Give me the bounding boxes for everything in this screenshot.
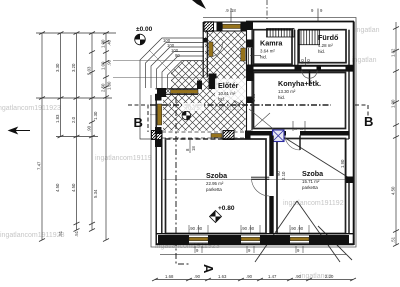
svg-text:ngatlancom1911923: ngatlancom1911923 (0, 105, 61, 112)
svg-text:10.61 m²: 10.61 m² (218, 91, 236, 96)
section line B-B horizontal dash-dot (150, 104, 331, 106)
svg-text:1.00: 1.00 (391, 99, 396, 108)
svg-text:2.10: 2.10 (281, 171, 286, 180)
svg-text:hid.: hid. (318, 49, 325, 54)
interior vertical wall foyer/kamra/konyha (222, 30, 305, 132)
window in top terrace wall (223, 24, 241, 28)
svg-text:.90: .90 (295, 274, 302, 279)
kamra door leaf (241, 48, 246, 61)
svg-text:22.95 m²: 22.95 m² (206, 181, 224, 186)
black post (217, 23, 223, 31)
svg-text:2.0: 2.0 (71, 116, 76, 123)
leader lines for steps (149, 50, 175, 115)
big triangle roof lines in szoba right (255, 136, 354, 262)
svg-text:4.50: 4.50 (391, 186, 396, 195)
svg-text:Előtér: Előtér (218, 81, 239, 90)
svg-text:2.50: 2.50 (101, 83, 106, 92)
svg-text:.90: .90 (194, 274, 201, 279)
leader lines from west dims (113, 60, 203, 62)
left big arrow (9, 128, 30, 134)
wall y=88.5-94.5 west strip (156, 74, 217, 98)
wall between kamra/fürdő and konyha (246, 57, 354, 86)
west wall lower (155, 94, 162, 244)
windows (brown bars) (189, 237, 309, 240)
svg-text:Konyha+étk.: Konyha+étk. (278, 79, 321, 88)
svg-text:ingatlancom19119: ingatlancom19119 (95, 155, 152, 162)
svg-text:±0.00: ±0.00 (136, 26, 153, 33)
section line A-A vertical top (266, 0, 268, 22)
kamra shelf hatch (267, 29, 295, 38)
svg-text:13.30 m²: 13.30 m² (278, 89, 296, 94)
section line A-A vertical bottom (176, 97, 190, 264)
svg-text:1.30: 1.30 (93, 111, 98, 120)
fürdő shower hatch (299, 30, 320, 45)
svg-text:90: 90 (300, 59, 305, 64)
svg-text:ingatlancom1911923: ingatlancom1911923 (0, 232, 65, 239)
svg-text:3.30: 3.30 (55, 63, 60, 72)
svg-text:hid.: hid. (278, 95, 285, 100)
hatched corner post (204, 22, 214, 32)
black posts at foyer SW corner (197, 81, 202, 90)
door between szobas (251, 177, 269, 179)
svg-text:4.50: 4.50 (71, 183, 76, 192)
svg-text:3.64 m²: 3.64 m² (260, 49, 275, 54)
level marker +0.75 (182, 106, 200, 120)
svg-text:90: 90 (175, 53, 180, 58)
svg-text:B: B (134, 115, 143, 130)
octagonal terrace steps (140, 38, 204, 139)
svg-text:5.34: 5.34 (93, 189, 98, 198)
svg-text:.90: .90 (107, 59, 112, 66)
svg-text:.90 .90: .90 .90 (189, 226, 203, 231)
left dimension lines (36, 33, 116, 240)
top terrace wall band (204, 22, 246, 32)
svg-text:1.83: 1.83 (55, 114, 60, 123)
black post right (241, 23, 247, 31)
filled segments between windows (158, 235, 189, 244)
kamra-fürdő separator (295, 30, 298, 67)
svg-text:parketta: parketta (206, 187, 222, 192)
svg-text:Szoba: Szoba (302, 169, 324, 178)
roof overhang outline (151, 18, 356, 255)
svg-text:.51: .51 (74, 230, 79, 237)
svg-text:+0.80: +0.80 (218, 205, 235, 212)
svg-text:1.00: 1.00 (101, 61, 106, 70)
east door opening lines (346, 139, 349, 179)
svg-text:3.20: 3.20 (71, 63, 76, 72)
svg-text:1.63: 1.63 (218, 274, 227, 279)
svg-text:B: B (364, 114, 373, 129)
svg-text:15.71 m²: 15.71 m² (302, 179, 320, 184)
svg-text:hid.: hid. (260, 55, 267, 60)
leader to kamra label (250, 55, 261, 57)
bottom dimension line (155, 279, 353, 281)
svg-text:4.50: 4.50 (55, 183, 60, 192)
svg-text:4.28 m²: 4.28 m² (318, 43, 333, 48)
B dashes (128, 105, 148, 132)
svg-text:Kamra: Kamra (260, 39, 283, 48)
svg-text:Fürdő: Fürdő (318, 33, 339, 42)
north arrow (192, 0, 206, 9)
svg-text:ingatlancom191192: ingatlancom191192 (283, 200, 344, 207)
svg-text:Szoba: Szoba (206, 171, 228, 180)
konyha diagonal leaders (249, 109, 277, 132)
level marker +0.80 (210, 205, 235, 223)
svg-text:90: 90 (306, 59, 311, 64)
svg-text:.51: .51 (58, 230, 63, 237)
svg-text:2.20: 2.20 (325, 274, 334, 279)
svg-text:.40: .40 (107, 39, 112, 46)
svg-text:.90 .90: .90 .90 (290, 226, 304, 231)
svg-text:1.50: 1.50 (251, 93, 256, 102)
dashed beam wall west part with posts (152, 131, 251, 154)
wall konyha/szoba-right (251, 130, 350, 150)
small dims above south windows (189, 8, 304, 231)
top house wall (Kamra / Fürdő) (246, 22, 354, 31)
west window (157, 104, 162, 125)
svg-text:18: 18 (191, 146, 196, 151)
terrace + foyer cross hatch (163, 32, 246, 131)
svg-text:.90: .90 (246, 274, 253, 279)
front door leaf (209, 42, 213, 57)
foyer west wall (113, 22, 223, 78)
svg-text:.90 .90: .90 .90 (241, 226, 255, 231)
svg-text:5.03: 5.03 (87, 66, 92, 75)
chimney (273, 130, 285, 142)
svg-text:parketta: parketta (302, 185, 318, 190)
szoba-right door arc (299, 136, 301, 151)
fürdő door (309, 71, 311, 86)
right dimension line (395, 22, 397, 245)
door dim ticks above szoba-right door (293, 121, 305, 131)
svg-text:1.68: 1.68 (165, 274, 174, 279)
south wall (156, 234, 354, 245)
east wall (340, 22, 354, 246)
level marker +0.00 (135, 26, 153, 45)
svg-text:1.90: 1.90 (340, 159, 345, 168)
wall between szobas (251, 136, 286, 234)
svg-text:1.00: 1.00 (107, 81, 112, 90)
svg-text:1.47: 1.47 (268, 274, 277, 279)
room inset boxes (166, 30, 347, 234)
svg-text:ingatlan: ingatlan (355, 27, 380, 34)
svg-text:hid.: hid. (218, 97, 225, 102)
svg-text:.90: .90 (87, 125, 92, 132)
thin line across szobas (163, 179, 347, 181)
svg-text:7.47: 7.47 (37, 161, 42, 170)
svg-text:.51: .51 (391, 236, 396, 243)
svg-text:1.00: 1.00 (101, 39, 106, 48)
svg-text:A: A (201, 264, 216, 274)
svg-text:1.82: 1.82 (391, 48, 396, 57)
